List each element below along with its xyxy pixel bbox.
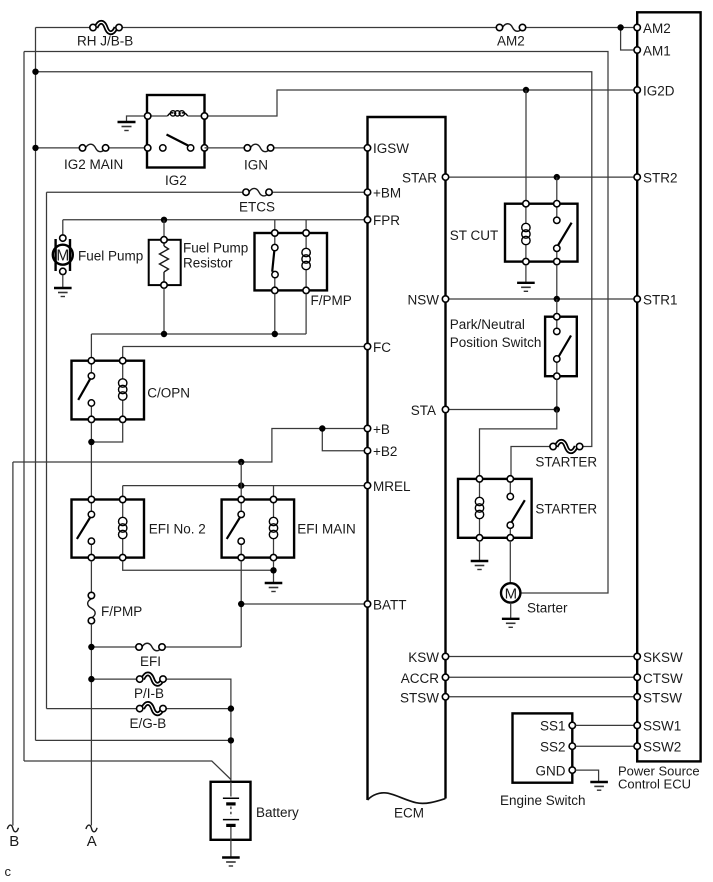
fuse IG2 MAIN	[64, 144, 123, 172]
node STA junction	[554, 406, 560, 412]
svg-text:STSW: STSW	[400, 690, 439, 705]
svg-text:+BM: +BM	[373, 186, 401, 201]
wire fpmp coil top stub	[305, 220, 307, 233]
wire left bus 3 vertical	[35, 28, 37, 741]
wire P/N switch top stub	[556, 299, 558, 317]
svg-text:P/I-B: P/I-B	[134, 686, 164, 701]
ground starter motor	[502, 619, 520, 628]
svg-text:B: B	[9, 833, 19, 850]
pin SSW2 ECU	[634, 740, 681, 755]
wire GND stub	[576, 770, 599, 781]
pin FPR	[364, 213, 400, 228]
svg-text:MREL: MREL	[373, 479, 411, 494]
node MREL bus junction	[238, 482, 244, 488]
switch Park/Neutral Position Switch	[450, 314, 577, 380]
svg-text:Fuel Pump: Fuel Pump	[78, 249, 143, 264]
wire row y72 to starter fuse	[36, 72, 592, 447]
svg-text:EFI No. 2: EFI No. 2	[149, 522, 206, 537]
svg-text:+B2: +B2	[373, 444, 397, 459]
svg-text:SSW1: SSW1	[643, 719, 681, 734]
wire EFI MAIN switch vertical	[240, 462, 242, 500]
svg-text:STARTER: STARTER	[535, 455, 597, 470]
wire battery diagonal row	[24, 761, 231, 780]
svg-text:STAR: STAR	[402, 171, 437, 186]
pin STAR	[402, 171, 449, 186]
svg-text:NSW: NSW	[408, 293, 440, 308]
wire IG2D row	[205, 90, 638, 116]
pin AM2 ECU	[634, 21, 671, 36]
fuse P/I-B	[91, 674, 231, 782]
node resistor bottom junction	[161, 331, 167, 337]
node EFI row junction	[88, 644, 94, 650]
svg-text:F/PMP: F/PMP	[311, 293, 352, 308]
svg-text:E/G-B: E/G-B	[130, 716, 167, 731]
pin STA	[411, 403, 449, 418]
fuse IGN	[205, 144, 368, 172]
svg-text:A: A	[87, 833, 97, 850]
svg-text:Park/Neutral: Park/Neutral	[450, 317, 525, 332]
svg-text:RH J/B-B: RH J/B-B	[77, 34, 133, 49]
wire starter switch to motor	[509, 541, 511, 583]
pin KSW	[408, 650, 448, 665]
node P/I-B row junction	[88, 676, 94, 682]
pin ACCR	[401, 671, 449, 686]
wire EFI MAIN bottom vertical	[240, 561, 242, 647]
svg-text:IG2: IG2	[165, 173, 187, 188]
svg-text:c: c	[5, 864, 12, 879]
node AM2 junction	[617, 24, 623, 30]
wire NSW row	[446, 298, 638, 300]
wire SS1 row	[576, 724, 638, 726]
wire A bus vertical	[90, 624, 92, 826]
wire fuel pump to ground	[62, 275, 64, 287]
node EFI MAIN ground junction	[270, 567, 276, 573]
wire BATT row	[241, 603, 367, 605]
svg-text:Position Switch: Position Switch	[450, 335, 542, 350]
relay C/OPN	[72, 358, 191, 423]
wire fpmp switch top stub	[274, 220, 276, 233]
svg-text:C/OPN: C/OPN	[147, 386, 190, 401]
wire KSW row	[446, 656, 638, 658]
node bus3 IG2 MAIN junction	[32, 145, 38, 151]
node B connector	[7, 825, 19, 850]
ground EFI MAIN	[265, 583, 283, 592]
svg-text:IGN: IGN	[244, 158, 268, 173]
wire IG2 coil to ground	[127, 116, 148, 122]
battery Battery	[211, 782, 299, 840]
node NSW junction	[554, 296, 560, 302]
wire EFI relays ground link	[123, 561, 274, 582]
wire ST CUT coil feed vertical	[525, 90, 527, 204]
relay EFI MAIN	[222, 496, 356, 561]
pin NSW	[408, 293, 449, 308]
pin SSW1 ECU	[634, 719, 681, 734]
pin STR2 ECU	[634, 171, 678, 186]
fuse F/PMP vertical	[88, 592, 143, 624]
pin BATT	[364, 598, 406, 613]
node +B row bus junction	[238, 459, 244, 465]
wire EFI No2 down to fuse	[90, 561, 92, 593]
node bus3 y72 junction	[32, 69, 38, 75]
fuse STARTER	[511, 441, 597, 479]
svg-text:SSW2: SSW2	[643, 740, 681, 755]
node BATT junction	[238, 601, 244, 607]
svg-text:Fuel Pump: Fuel Pump	[183, 241, 248, 256]
motor fuel pump	[53, 235, 143, 275]
relay ST CUT	[450, 201, 578, 265]
node +B junction	[319, 425, 325, 431]
node STAR junction	[554, 174, 560, 180]
wire SS2 row	[576, 745, 638, 747]
ground IG2 coil	[118, 122, 136, 131]
svg-text:SS1: SS1	[540, 719, 566, 734]
svg-text:M: M	[56, 247, 69, 264]
wire starter coil to ground	[479, 541, 481, 560]
svg-text:BATT: BATT	[373, 598, 407, 613]
svg-text:F/PMP: F/PMP	[101, 604, 142, 619]
wire ST CUT coil to ground	[525, 265, 527, 282]
svg-text:STA: STA	[411, 403, 436, 418]
svg-text:SS2: SS2	[540, 740, 566, 755]
svg-text:+B: +B	[373, 422, 390, 437]
fuse RH J/B-B	[77, 22, 133, 48]
pin STSW	[400, 690, 449, 705]
svg-text:EFI: EFI	[140, 654, 161, 669]
svg-text:Engine Switch: Engine Switch	[500, 793, 586, 808]
node fpmp switch bottom junction	[272, 331, 278, 337]
wire IG2 MAIN row	[36, 147, 148, 149]
pin +B	[364, 422, 390, 437]
pin STR1 ECU	[634, 293, 678, 308]
wire FC row	[123, 347, 368, 362]
relay IG2	[145, 95, 208, 188]
svg-text:Battery: Battery	[256, 805, 299, 820]
wire FPR row	[63, 219, 368, 221]
wire STAR row	[446, 176, 638, 178]
svg-text:AM1: AM1	[643, 44, 671, 59]
node resistor top junction	[161, 217, 167, 223]
pin +B2	[364, 444, 397, 459]
fuse EFI	[91, 643, 241, 669]
wire fuel pump feed	[62, 220, 64, 238]
pin SKSW ECU	[634, 650, 683, 665]
wire left bus 2 vertical	[23, 52, 25, 762]
fuse ETCS	[47, 188, 368, 214]
pin FC	[364, 340, 391, 355]
svg-text:STARTER: STARTER	[535, 502, 597, 517]
switch Engine Switch	[500, 713, 586, 808]
svg-text:EFI MAIN: EFI MAIN	[297, 522, 356, 537]
svg-text:IG2 MAIN: IG2 MAIN	[64, 157, 123, 172]
svg-text:ETCS: ETCS	[239, 200, 275, 215]
relay F/PMP	[255, 230, 352, 308]
svg-text:AM2: AM2	[497, 34, 525, 49]
svg-text:GND: GND	[536, 763, 566, 778]
ground starter relay	[471, 561, 489, 570]
svg-text:CTSW: CTSW	[643, 671, 683, 686]
pin +BM	[364, 186, 401, 201]
node C/OPN bottom	[88, 439, 94, 445]
resistor fuel pump resistor	[149, 237, 249, 289]
wire MREL row	[123, 486, 368, 500]
node battery top junction	[228, 737, 234, 743]
svg-text:STR1: STR1	[643, 293, 678, 308]
wire row y51 to starter motor	[24, 52, 608, 594]
wire left bus 4 vertical	[46, 192, 48, 708]
wire C/OPN bottom junction	[91, 423, 122, 500]
relay EFI No. 2	[72, 496, 206, 561]
svg-text:Control ECU: Control ECU	[618, 777, 691, 792]
wire P/N to STA row	[556, 379, 558, 409]
wire ACCR row	[446, 676, 638, 678]
pin CTSW ECU	[634, 671, 683, 686]
wire +B2 jog	[322, 429, 367, 451]
wire AM1 jog	[621, 28, 638, 51]
ground ST CUT	[517, 283, 535, 292]
wire STA row	[446, 409, 557, 411]
svg-text:FC: FC	[373, 340, 391, 355]
wire STSW row	[446, 696, 638, 698]
svg-text:IGSW: IGSW	[373, 141, 409, 156]
wire battery to ground	[230, 840, 232, 857]
node E/G-B battery junction	[228, 705, 234, 711]
svg-text:Resistor: Resistor	[183, 256, 233, 271]
svg-text:SKSW: SKSW	[643, 650, 683, 665]
svg-text:Starter: Starter	[527, 601, 568, 616]
svg-text:ECM: ECM	[394, 806, 424, 821]
svg-text:STSW: STSW	[643, 690, 682, 705]
ground battery	[222, 858, 240, 867]
pin STSW ECU	[634, 690, 682, 705]
pin IG2D ECU	[634, 84, 675, 99]
svg-text:ACCR: ACCR	[401, 671, 440, 686]
fuse AM2	[496, 24, 525, 49]
fuse E/G-B	[47, 703, 231, 731]
node IG2D junction	[523, 87, 529, 93]
svg-text:ST CUT: ST CUT	[450, 228, 499, 243]
wire starter motor to ground	[510, 603, 512, 618]
svg-text:STR2: STR2	[643, 171, 678, 186]
svg-text:AM2: AM2	[643, 21, 671, 36]
wire fpmp bottom row y334	[91, 288, 306, 361]
svg-text:IG2D: IG2D	[643, 84, 675, 99]
ground engine switch	[590, 782, 608, 790]
svg-text:KSW: KSW	[408, 650, 439, 665]
pin IGSW	[364, 141, 409, 156]
wire resistor top stub	[163, 220, 165, 240]
ground fuel pump	[54, 288, 72, 297]
ECU Power Source Control ECU box	[618, 12, 701, 791]
pin AM1 ECU	[634, 44, 671, 59]
wire +B row	[13, 429, 368, 463]
node A connector	[86, 825, 97, 850]
wire ST CUT switch bottom	[556, 265, 558, 299]
wire STA to starter coil	[480, 410, 557, 479]
wire top row to AM2	[36, 27, 638, 29]
motor Starter	[501, 583, 568, 615]
ECM box	[368, 117, 446, 821]
wire ST CUT switch top stub	[556, 177, 558, 204]
svg-text:FPR: FPR	[373, 213, 400, 228]
svg-text:M: M	[505, 585, 517, 602]
relay STARTER	[458, 476, 597, 541]
wire battery top row	[36, 739, 231, 741]
wire left bus B vertical	[12, 462, 14, 826]
pin MREL	[364, 479, 411, 494]
